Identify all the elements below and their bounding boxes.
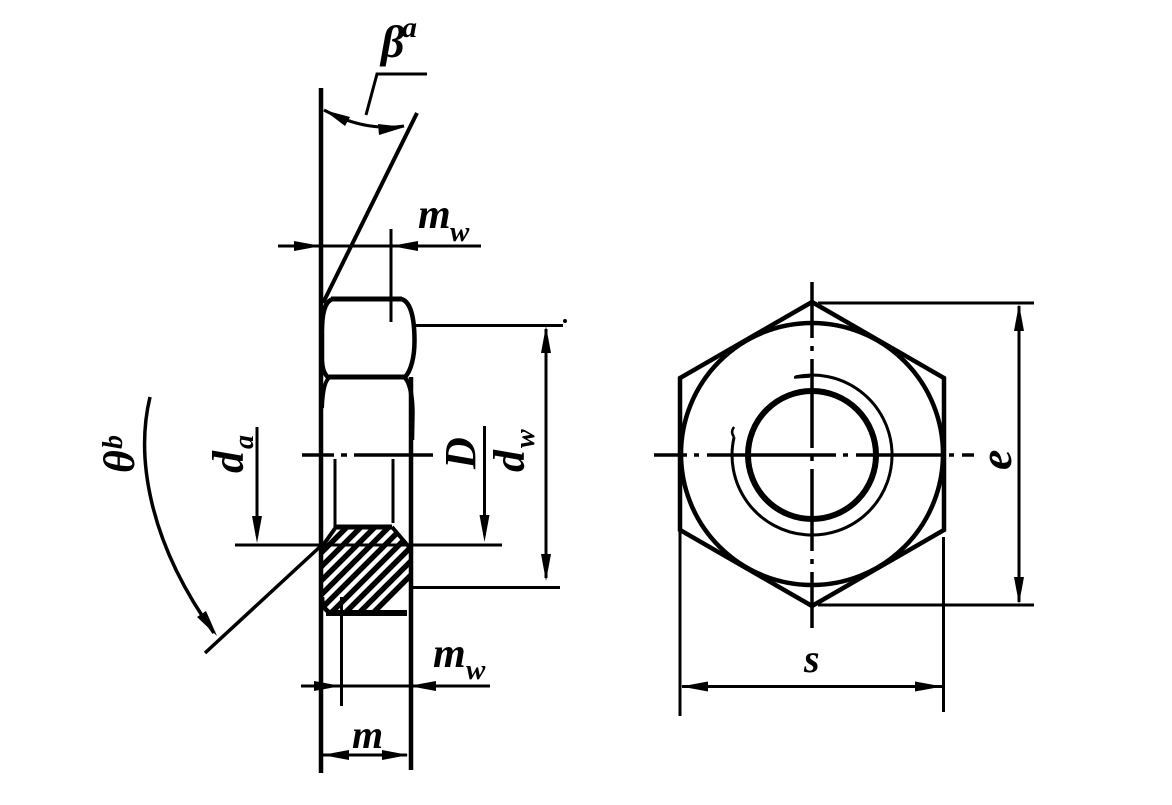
svg-text:a: a [402, 11, 417, 44]
e extension line top [818, 302, 1034, 305]
beta leader line [366, 74, 427, 115]
right face line / extension line [409, 377, 414, 770]
facet right chamfer arc [404, 377, 413, 440]
bore inner vertical right [392, 459, 395, 523]
m right arrowhead [382, 750, 409, 760]
beta arc right arrowhead [378, 124, 405, 135]
top facet left chamfer arc [322, 299, 333, 377]
facet left cusp arc [322, 377, 330, 408]
m_w top tick line [390, 229, 393, 322]
theta arc arrowhead [197, 611, 217, 636]
thread bore line [336, 525, 392, 530]
m_w bottom tick line [340, 597, 343, 706]
bore chamfer diagonal right [392, 527, 410, 548]
svg-text:d: d [485, 449, 534, 472]
e extension line bottom [818, 604, 1034, 607]
top facet right chamfer arc [401, 299, 415, 377]
label d_w (rotated) [485, 429, 541, 472]
e top arrowhead [1014, 304, 1024, 331]
s left arrowhead [681, 682, 708, 692]
d_w extension top end dot [563, 319, 567, 323]
d_a arrowhead [252, 516, 262, 543]
hexagon outline [680, 302, 944, 606]
left bearing-face line / extension line [319, 88, 324, 773]
m_w bottom left arrowhead [314, 681, 341, 691]
svg-text:e: e [970, 450, 1021, 470]
thread arc end hook [732, 427, 734, 437]
d_w bottom arrowhead [541, 554, 551, 581]
d_w extension line top [415, 324, 563, 327]
s right arrowhead [915, 682, 943, 692]
beta slant face line [323, 113, 417, 303]
svg-text:w: w [450, 216, 470, 248]
bottom-left rounded corner [322, 597, 332, 613]
dimension m_w (bottom) line [301, 685, 490, 688]
label theta^b (rotated) [95, 435, 144, 473]
top corner face [331, 297, 402, 302]
svg-text:w: w [510, 429, 541, 448]
section hatching [300, 500, 486, 620]
beta angle arc [324, 110, 404, 127]
svg-text:w: w [466, 654, 486, 686]
m left arrowhead [322, 750, 349, 760]
s extension line right [942, 537, 945, 712]
bottom face line of section [326, 610, 407, 616]
svg-text:θ: θ [95, 450, 144, 473]
svg-text:b: b [98, 435, 129, 449]
vertical centerline [810, 282, 814, 628]
dimension e line [1018, 306, 1021, 602]
svg-text:d: d [204, 450, 253, 473]
bore inner vertical left [334, 459, 337, 527]
theta leader diagonal [205, 544, 323, 653]
axis centerline (left view) [302, 453, 334, 457]
dimension D arrow line [483, 426, 486, 535]
beta arc left arrowhead [324, 110, 350, 126]
dimension d_a arrow line [256, 427, 259, 536]
inscribed chamfer circle [681, 323, 943, 585]
d_w extension line bottom [412, 586, 560, 589]
e bottom arrowhead [1014, 577, 1024, 604]
d_w top arrowhead [541, 326, 551, 353]
m_w top right arrowhead [391, 241, 418, 251]
svg-text:m: m [418, 192, 451, 238]
m_w top left arrowhead [294, 241, 321, 251]
svg-text:a: a [229, 435, 260, 449]
dimension d_w line [545, 329, 548, 578]
label d_a (rotated) [204, 435, 260, 473]
bore chamfer diagonal left [323, 527, 337, 546]
m_w bottom right arrowhead [409, 681, 436, 691]
svg-text:s: s [803, 636, 820, 681]
theta angle arc [145, 397, 214, 633]
facet line [329, 375, 405, 380]
D arrowhead [480, 515, 490, 542]
dimension m line [323, 754, 407, 757]
svg-text:D: D [436, 437, 485, 470]
label e (rotated) [970, 450, 1021, 470]
thread arc top tail [794, 377, 810, 378]
svg-text:m: m [352, 712, 383, 757]
thread major diameter arc [732, 375, 892, 535]
label D (rotated) [436, 437, 485, 470]
horizontal centerline [654, 453, 974, 457]
s extension line left [679, 530, 682, 716]
dimension s line [682, 685, 942, 688]
extension line for d_a and D [235, 544, 502, 547]
dimension m_w (top) line [278, 245, 481, 248]
svg-text:m: m [433, 631, 466, 677]
thread bore circle [748, 391, 876, 519]
